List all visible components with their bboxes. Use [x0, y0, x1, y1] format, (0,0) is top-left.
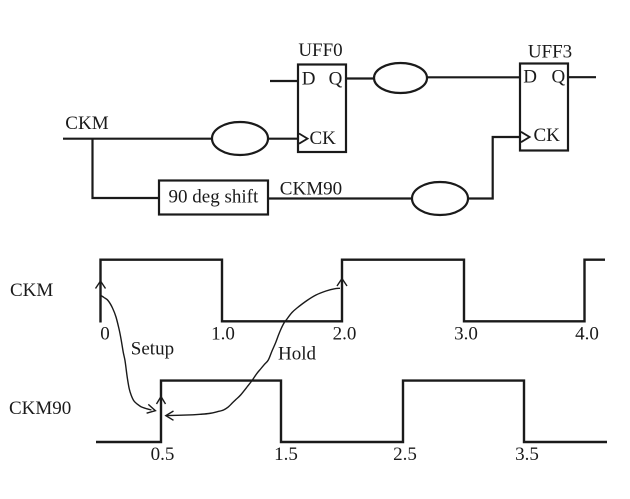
- CKM waveform: [101, 260, 606, 323]
- hold arrowhead: [166, 411, 174, 420]
- svg-text:CKM: CKM: [65, 113, 108, 134]
- svg-text:Setup: Setup: [131, 339, 174, 360]
- svg-text:CK: CK: [310, 128, 337, 149]
- svg-text:3.0: 3.0: [454, 324, 478, 345]
- delay ellipse on CKM90 line: [412, 182, 468, 215]
- svg-text:3.5: 3.5: [515, 444, 539, 465]
- rising edge marker on CKM at t=0: [96, 281, 106, 289]
- wire UFF3 Q output: [568, 76, 596, 78]
- svg-text:CKM90: CKM90: [280, 178, 342, 199]
- svg-text:0: 0: [100, 324, 110, 345]
- svg-text:CKM90: CKM90: [9, 398, 71, 419]
- delay ellipse between UFF0 Q and UFF3 D: [374, 63, 427, 93]
- rising edge marker on CKM90 at t=0.5: [157, 397, 166, 405]
- setup arrowhead: [147, 404, 156, 413]
- svg-text:4.0: 4.0: [575, 324, 599, 345]
- svg-text:D: D: [523, 67, 537, 88]
- svg-text:CKM: CKM: [10, 280, 53, 301]
- wire CKM branch down to 90 deg shift: [93, 139, 160, 198]
- setup arrow curve: [101, 295, 152, 410]
- svg-text:1.0: 1.0: [211, 324, 235, 345]
- wire UFF0 Q to ellipse: [346, 77, 374, 79]
- svg-text:UFF0: UFF0: [298, 40, 342, 61]
- UFF0 clock triangle: [299, 134, 308, 144]
- wire D input of UFF0: [270, 80, 298, 82]
- wire ellipse to UFF0 CK: [268, 138, 298, 140]
- wire ellipse to UFF3 D: [427, 76, 520, 78]
- svg-text:CK: CK: [534, 125, 561, 146]
- flip-flop UFF3 body: [520, 64, 568, 151]
- svg-text:Hold: Hold: [278, 344, 317, 365]
- CKM90 waveform: [96, 381, 607, 442]
- wire 90 deg shift output to ellipse: [268, 197, 412, 199]
- svg-text:2.5: 2.5: [393, 444, 417, 465]
- svg-text:90 deg shift: 90 deg shift: [169, 187, 259, 208]
- svg-text:Q: Q: [552, 67, 566, 88]
- wire ellipse up to UFF3 CK: [468, 137, 520, 199]
- svg-text:0.5: 0.5: [151, 444, 175, 465]
- svg-text:1.5: 1.5: [274, 444, 298, 465]
- wire CKM horizontal to ellipse: [63, 138, 212, 140]
- svg-text:Q: Q: [329, 69, 343, 90]
- UFF3 clock triangle: [521, 132, 530, 142]
- rising edge marker on CKM at t=2.0: [337, 279, 347, 287]
- svg-text:UFF3: UFF3: [528, 42, 572, 63]
- flip-flop UFF0 body: [298, 65, 346, 153]
- block 90 deg shift: [159, 181, 268, 215]
- hold arrow curve: [167, 288, 340, 415]
- svg-text:D: D: [302, 69, 316, 90]
- delay ellipse on CKM line: [212, 122, 268, 155]
- svg-text:2.0: 2.0: [333, 324, 357, 345]
